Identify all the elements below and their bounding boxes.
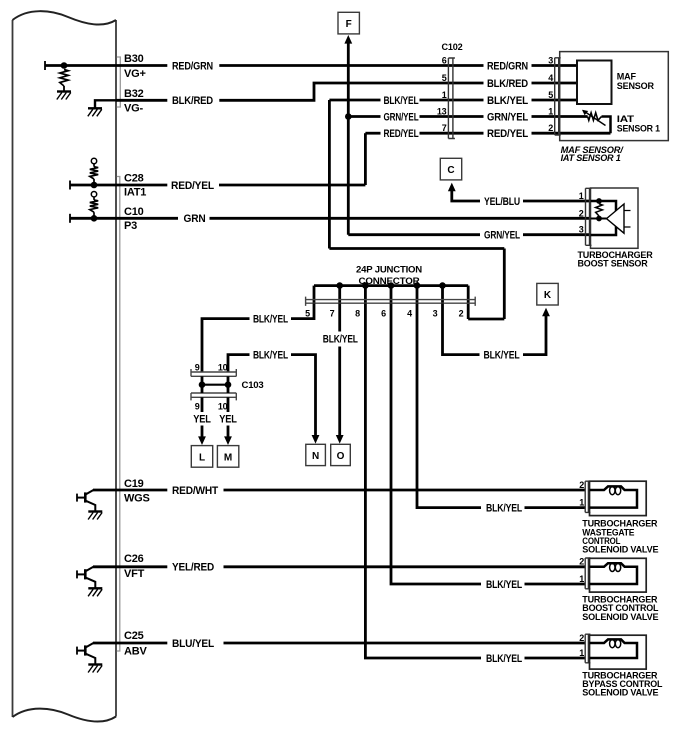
svg-text:IAT1: IAT1 (124, 187, 146, 199)
svg-text:7: 7 (442, 123, 447, 133)
svg-text:BLK/YEL: BLK/YEL (486, 503, 522, 515)
svg-text:6: 6 (442, 55, 447, 65)
svg-text:2: 2 (579, 557, 584, 567)
C103 pin 10 through wire (227, 376, 230, 393)
solenoid valve wastegate body (590, 481, 647, 515)
MAF sensor inner box (577, 61, 612, 105)
svg-text:SOLENOID VALVE: SOLENOID VALVE (582, 612, 658, 622)
solenoid valve bypass control body (590, 635, 647, 669)
svg-text:C28: C28 (124, 173, 144, 185)
svg-text:SOLENOID VALVE: SOLENOID VALVE (582, 688, 658, 698)
ground B30 resistor (57, 90, 71, 92)
MAF sensor connector bar (555, 58, 561, 135)
svg-text:BLU/YEL: BLU/YEL (172, 638, 214, 650)
resistor ECM pull-up at C10 (91, 192, 96, 197)
connector F box (338, 12, 359, 34)
connector shell bracket C28..C25 (117, 177, 120, 652)
solenoid valve wastegate connector bar (585, 481, 590, 512)
wire RED/YEL riser down to C28 row (364, 133, 367, 185)
node GRN/YEL junction at F riser (345, 113, 352, 120)
svg-text:1: 1 (442, 90, 447, 100)
svg-text:BLK/YEL: BLK/YEL (323, 333, 358, 345)
boost sensor internal resistor (596, 204, 603, 216)
svg-text:RED/YEL: RED/YEL (171, 180, 214, 192)
ground at Q2 emitter (88, 587, 102, 589)
solenoid valve boost control body (590, 558, 647, 592)
ECM band top wavy edge (13, 11, 117, 24)
svg-text:BLK/RED: BLK/RED (172, 95, 213, 107)
wire BLK/RED C102 to MAF pin 4 (454, 82, 484, 85)
svg-text:GRN/YEL: GRN/YEL (484, 230, 520, 242)
svg-text:RED/YEL: RED/YEL (384, 128, 419, 140)
ECM band bottom wavy edge (13, 709, 117, 722)
svg-text:1: 1 (579, 574, 584, 584)
svg-text:BLK/YEL: BLK/YEL (484, 350, 520, 362)
svg-text:VG+: VG+ (124, 68, 146, 80)
connector M box (217, 446, 238, 468)
C103 pin 9 through wire (201, 376, 204, 393)
wire C10 internal (69, 214, 71, 223)
svg-text:YEL/BLU: YEL/BLU (484, 196, 520, 208)
svg-text:GRN/YEL: GRN/YEL (487, 112, 528, 124)
thermistor IAT sensor 1 (588, 113, 602, 121)
svg-text:2: 2 (548, 123, 553, 133)
wire BLK/YEL 24P pin 4 to wastegate valve pin 1 (417, 304, 481, 508)
svg-text:6: 6 (381, 308, 386, 318)
svg-text:24P JUNCTION: 24P JUNCTION (356, 265, 422, 276)
wire C28 internal (69, 181, 71, 190)
svg-text:1: 1 (579, 497, 584, 507)
coil of wastegate (590, 486, 638, 507)
svg-text:C102: C102 (442, 42, 463, 52)
wire RED/WHT C19 to wastegate valve pin 2 (93, 489, 167, 492)
svg-text:O: O (337, 451, 345, 462)
transistor Q1 (ECM driver) (77, 490, 95, 511)
svg-text:BLK/YEL: BLK/YEL (253, 350, 288, 362)
arrowhead into N (312, 435, 320, 444)
svg-text:2: 2 (579, 480, 584, 490)
svg-text:RED/GRN: RED/GRN (487, 60, 528, 72)
node C10 internal junction (91, 215, 98, 222)
svg-text:4: 4 (548, 73, 553, 83)
svg-text:5: 5 (305, 308, 310, 318)
wire BLK/YEL 24P pin 8 to bypass valve pin 1 (365, 304, 481, 659)
svg-text:B32: B32 (124, 88, 144, 100)
solenoid valve bypass control connector bar (585, 634, 590, 663)
24P bus junction dots (336, 282, 343, 289)
svg-text:9: 9 (195, 401, 200, 411)
svg-text:3: 3 (548, 55, 553, 65)
node B30 internal junction (61, 62, 68, 69)
boost sensor amplifier triangle (607, 204, 625, 233)
connector C box (440, 158, 461, 180)
wire BLK/YEL 24P pin 5 to C103 pin 9 (291, 304, 314, 319)
svg-text:3: 3 (579, 225, 584, 235)
wire YEL/BLU boost sensor pin 1 to C (452, 190, 480, 202)
svg-text:GRN/YEL: GRN/YEL (384, 112, 419, 124)
wire IAT loop (602, 117, 611, 134)
svg-text:BLK/YEL: BLK/YEL (486, 579, 522, 591)
svg-text:YEL/RED: YEL/RED (172, 562, 214, 574)
arrowhead into C (448, 183, 456, 192)
node boost resistor top (596, 198, 602, 204)
wire BLK/YEL 24P pin 3 to K (443, 304, 480, 355)
ground at Q3 emitter (88, 663, 102, 665)
svg-text:BLK/YEL: BLK/YEL (486, 653, 522, 665)
svg-text:C26: C26 (124, 553, 144, 565)
connector O box (331, 444, 351, 465)
ground at Q1 emitter (88, 510, 102, 512)
svg-text:3: 3 (433, 308, 438, 318)
svg-text:BOOST SENSOR: BOOST SENSOR (578, 258, 649, 268)
ECM housing band (13, 20, 117, 717)
svg-text:M: M (224, 452, 232, 463)
solenoid valve boost control connector bar (585, 558, 590, 589)
wire VG- internal to ground (95, 100, 116, 108)
svg-text:L: L (199, 452, 205, 463)
svg-text:N: N (312, 451, 319, 462)
transistor Q3 (ECM driver) (77, 643, 95, 664)
svg-text:9: 9 (195, 362, 200, 372)
wire GRN/YEL to turbocharger boost sensor pin 3 (348, 233, 480, 236)
svg-text:7: 7 (330, 308, 335, 318)
wire BLK/YEL 24P pin 7 to O (338, 304, 341, 332)
wire BLK/YEL C103 pin 10 to N (228, 355, 250, 373)
resistor ECM pull-up at B30 (60, 70, 68, 87)
svg-text:13: 13 (437, 106, 447, 116)
svg-text:5: 5 (548, 90, 553, 100)
wire BLK/YEL riser x504 down (503, 249, 506, 320)
wire RED/GRN C102 to MAF pin 3 (454, 64, 484, 67)
arrowhead into L (198, 436, 206, 445)
svg-text:8: 8 (355, 308, 360, 318)
boost sensor internal wires (591, 201, 617, 235)
svg-text:BLK/YEL: BLK/YEL (253, 314, 288, 326)
svg-text:RED/WHT: RED/WHT (172, 485, 218, 497)
wire BLU/YEL C25 to bypass control valve pin 2 (93, 642, 167, 645)
svg-text:SENSOR: SENSOR (617, 81, 655, 91)
svg-text:C10: C10 (124, 206, 144, 218)
coil of bypass control (590, 639, 638, 658)
svg-text:10: 10 (218, 362, 228, 372)
wire GRN/YEL riser to F and down to boost sensor pin 3 (347, 42, 350, 235)
wire YEL C103 pin 9 to L (201, 397, 204, 412)
MAF/IAT sensor outer box (560, 52, 669, 141)
wire BLK/YEL riser C102 pin1 down to junction row (328, 100, 331, 249)
svg-text:2: 2 (579, 208, 584, 218)
wire GRN/YEL C102 pin 13 left segment (348, 115, 380, 118)
wire BLK/YEL 24P pin 6 to boost control valve pin 1 (391, 304, 481, 585)
arrowhead into M (224, 436, 232, 445)
svg-text:2: 2 (459, 308, 464, 318)
svg-text:1: 1 (579, 191, 584, 201)
boost sensor connector bar (586, 188, 592, 245)
svg-text:F: F (346, 19, 352, 30)
24P bus wire BLK/YEL (314, 284, 468, 287)
svg-text:RED/GRN: RED/GRN (172, 60, 213, 72)
svg-text:YEL: YEL (219, 413, 237, 425)
arrowhead into K (542, 308, 550, 317)
wire YEL C103 pin 10 to M (227, 397, 230, 412)
transistor Q2 (ECM driver) (77, 567, 95, 588)
svg-text:SENSOR 1: SENSOR 1 (617, 123, 660, 133)
wire BLK/YEL into 24P pin 2 (468, 318, 504, 321)
node C28 internal junction (91, 182, 98, 189)
wire RED/YEL C102 to MAF pin 2 (454, 132, 484, 135)
svg-text:1: 1 (548, 106, 553, 116)
svg-text:C25: C25 (124, 630, 144, 642)
svg-text:ABV: ABV (124, 646, 147, 658)
connector N box (306, 444, 326, 465)
connector shell bracket B30/B32 (117, 57, 121, 107)
arrowhead into O (336, 435, 344, 444)
wire BLK/YEL C102 pin 1 left segment (329, 99, 380, 102)
svg-text:C103: C103 (242, 380, 264, 390)
connector C103 bottom bar (191, 393, 236, 400)
node boost resistor bottom (596, 216, 602, 222)
svg-text:YEL: YEL (193, 413, 211, 425)
svg-text:SOLENOID VALVE: SOLENOID VALVE (582, 545, 658, 555)
svg-text:VFT: VFT (124, 568, 145, 580)
wire YEL/RED C26 to boost control valve pin 2 (93, 565, 167, 568)
svg-text:VG-: VG- (124, 102, 143, 114)
24P pin stubs (313, 286, 316, 304)
svg-text:P3: P3 (124, 220, 137, 232)
arrowhead into F (344, 35, 352, 44)
svg-text:4: 4 (407, 308, 412, 318)
svg-text:5: 5 (442, 73, 447, 83)
C103 internal jumper (202, 384, 228, 386)
connector L box (191, 446, 212, 468)
wire GRN/YEL C102 to MAF pin 1 (IAT) (454, 115, 484, 118)
svg-text:C: C (447, 165, 454, 176)
ground B32 (88, 107, 102, 109)
svg-text:B30: B30 (124, 53, 144, 65)
wire BLK/YEL horizontal to riser x504 (329, 247, 504, 250)
svg-text:IAT SENSOR 1: IAT SENSOR 1 (561, 153, 621, 163)
resistor ECM pull-up at C28 (91, 158, 96, 163)
connector C103 top bar (191, 369, 236, 376)
wire BLK/YEL C102 to MAF pin 5 (454, 99, 484, 102)
svg-text:BLK/YEL: BLK/YEL (384, 95, 419, 107)
24P connector bar (306, 297, 476, 306)
svg-text:C19: C19 (124, 478, 144, 490)
wire VG+ internal (44, 61, 46, 70)
svg-text:GRN: GRN (184, 213, 206, 225)
boost sensor outer box (591, 188, 639, 248)
svg-text:1: 1 (579, 648, 584, 658)
wire GRN inside boost sensor to amplifier (591, 218, 607, 220)
wire RED/YEL C102 pin 7 left segment (365, 132, 380, 135)
coil of boost control (590, 563, 638, 584)
connector C102 bar (448, 58, 455, 139)
svg-text:WGS: WGS (124, 493, 150, 505)
svg-text:2: 2 (579, 633, 584, 643)
connector K box (537, 283, 558, 305)
svg-text:RED/YEL: RED/YEL (487, 128, 528, 140)
wire BLK/RED B32 to C102 pin 5 (116, 99, 167, 102)
svg-text:BLK/RED: BLK/RED (487, 78, 528, 90)
svg-text:10: 10 (218, 401, 228, 411)
svg-text:BLK/YEL: BLK/YEL (487, 95, 528, 107)
svg-text:K: K (544, 290, 552, 301)
